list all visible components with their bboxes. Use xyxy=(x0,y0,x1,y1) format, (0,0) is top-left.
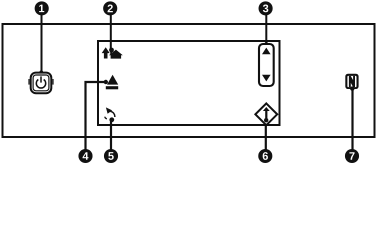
callout circle 3 xyxy=(259,1,273,15)
callout circle 2 xyxy=(103,1,117,15)
callout circle 4 xyxy=(78,149,92,163)
callout circle 5 xyxy=(104,149,118,163)
callout line 5 xyxy=(110,121,112,152)
power button P xyxy=(28,73,53,94)
callout circle 1 xyxy=(35,1,49,15)
callout circle 7 xyxy=(345,149,359,163)
control panel outline xyxy=(3,24,375,137)
callout line 7 xyxy=(351,88,353,151)
callout line 4 xyxy=(86,82,106,151)
callout line 6 xyxy=(265,120,267,151)
callout circle 6 xyxy=(258,149,272,163)
callout line 3 xyxy=(265,12,267,44)
LCD frame xyxy=(98,41,280,125)
callout line 2 xyxy=(110,12,112,50)
up/down scroll button xyxy=(259,44,274,86)
paper eject button icon xyxy=(106,75,118,89)
OK / start diamond button xyxy=(255,103,277,125)
home button icon xyxy=(102,47,123,58)
NFC N-mark xyxy=(345,74,358,91)
callout line 1 xyxy=(41,12,43,73)
back button icon xyxy=(105,107,115,119)
